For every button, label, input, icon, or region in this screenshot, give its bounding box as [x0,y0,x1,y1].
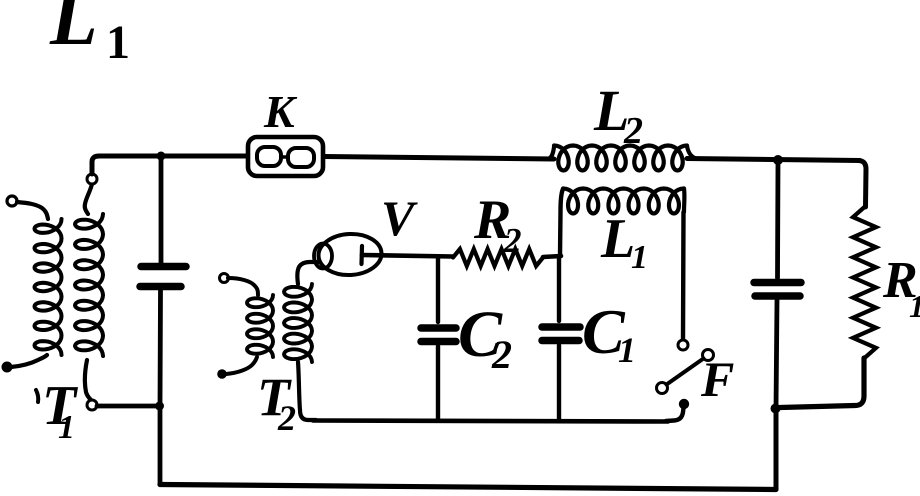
key K right contact [288,148,314,167]
wire R2 to L1 node [543,256,561,257]
resistor R1 [853,207,876,358]
node junction left [157,152,166,161]
wire T2 secondary bottom lead [298,362,316,420]
capacitor left (unlabeled) top plate [141,263,186,271]
terminal T1 secondary top [87,174,97,184]
inductor L1 [563,189,684,214]
terminal T2 primary top [220,274,229,283]
svg-text:1: 1 [631,239,648,276]
wire tube V to R2 [362,255,453,257]
terminal T1 secondary bottom [87,400,97,410]
wire T2 secondary top lead [297,262,319,284]
terminal T1 primary bottom [2,362,13,373]
wire top-left corner [92,156,158,174]
wire right vertical to outer bottom [774,408,779,489]
tube V envelope [317,232,382,276]
capacitor left (unlabeled) bottom plate [140,283,181,291]
capacitor right (unlabeled) bottom plate [755,292,800,300]
svg-text:2: 2 [503,221,522,260]
svg-text:1: 1 [618,330,636,370]
wire left vertical to outer bottom [158,406,163,483]
wire C1 vertical upper [557,256,561,321]
svg-text:2: 2 [277,398,296,438]
wire right vertical upper [775,160,780,278]
wire L1 right vertical [681,212,686,340]
node junction bottom right [771,404,781,414]
node junction top right [773,155,783,165]
svg-text:L: L [600,208,635,270]
wire T1 bottom to junction [97,404,156,409]
capacitor C2 bottom plate [421,338,456,346]
wire L1 left vertical [560,189,563,256]
wire C1 vertical lower [557,345,561,421]
capacitor right (unlabeled) top plate [754,279,801,287]
transformer T1 secondary coil [75,214,103,356]
wire right vertical lower [776,300,777,408]
wire L2 to right corner [687,159,860,161]
svg-text:F: F [700,351,734,407]
label T1 [36,390,38,402]
wire inside key [281,155,288,158]
svg-text:2: 2 [491,332,512,377]
wire C2 vertical lower [436,346,440,420]
svg-text:2: 2 [623,110,643,152]
wire top right corner to R1 [858,161,866,208]
wire left vertical lower [158,290,163,406]
wire T1 secondary top lead [85,184,92,214]
key K outer case [248,137,323,176]
node junction left bottom [155,402,164,411]
transformer T1 primary coil [35,219,62,355]
wire inner bottom [313,421,668,422]
wire C2 vertical upper [436,257,440,323]
terminal T2 primary bottom [217,369,227,379]
svg-text:1: 1 [106,16,130,69]
switch F blade [657,383,668,394]
wire R1 bottom corner [780,358,864,408]
capacitor C1 top plate [542,323,580,331]
wire key K to L2 [324,157,554,160]
wire top (junction to key K) [161,154,246,159]
terminal T1 primary top [7,196,17,206]
svg-text:K: K [263,86,298,137]
switch F top contact [678,340,688,350]
inductor L2 [547,147,554,159]
svg-text:1: 1 [909,288,920,324]
capacitor C1 bottom plate [542,337,579,345]
svg-text:1: 1 [58,409,75,446]
svg-text:L: L [49,0,98,61]
wire T1 secondary bottom lead [85,360,91,400]
capacitor C2 top plate [421,324,456,332]
tube V electrode [359,246,364,264]
resistor R2 [453,249,543,266]
switch F bottom terminal [679,399,689,409]
transformer T2 secondary coil [284,284,312,362]
wire outer bottom [160,485,776,490]
transformer T2 primary coil [247,295,273,357]
key K left contact [257,147,281,166]
svg-text:V: V [381,190,418,246]
wire left vertical upper [159,156,164,263]
